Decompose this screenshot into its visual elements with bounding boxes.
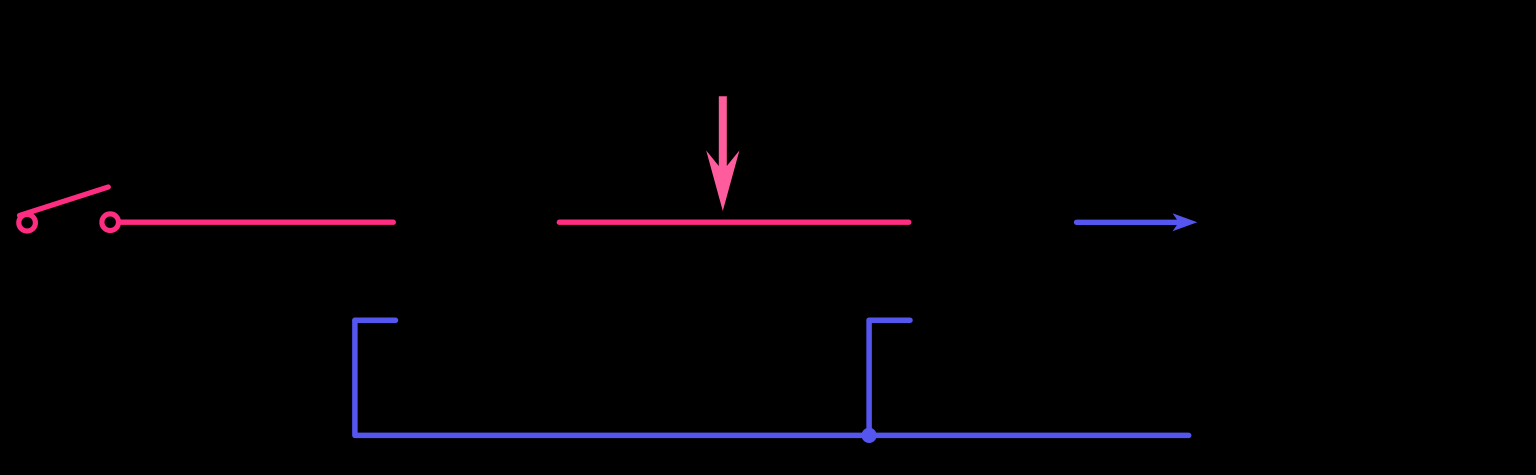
component A (hidden, black-on-black) (397, 180, 557, 264)
neutral stub left (blue) (355, 318, 396, 324)
neutral vertical right (blue) (866, 320, 872, 435)
wire live segment 2 (559, 220, 909, 225)
switch S1 right contact circle (102, 214, 119, 231)
junction node dot (862, 428, 877, 443)
arrow down (pink) pointing at live wire (706, 96, 739, 211)
arrow right (blue) current direction (1077, 220, 1181, 225)
neutral wire left vertical + bottom run (blue) (355, 320, 1189, 435)
switch S1 lever (20, 187, 109, 216)
wire live segment 1 (121, 220, 394, 225)
component B (hidden, black-on-black) (912, 180, 1072, 264)
switch S1 (open) left contact circle (19, 214, 36, 231)
neutral stub right (blue) (869, 317, 910, 323)
